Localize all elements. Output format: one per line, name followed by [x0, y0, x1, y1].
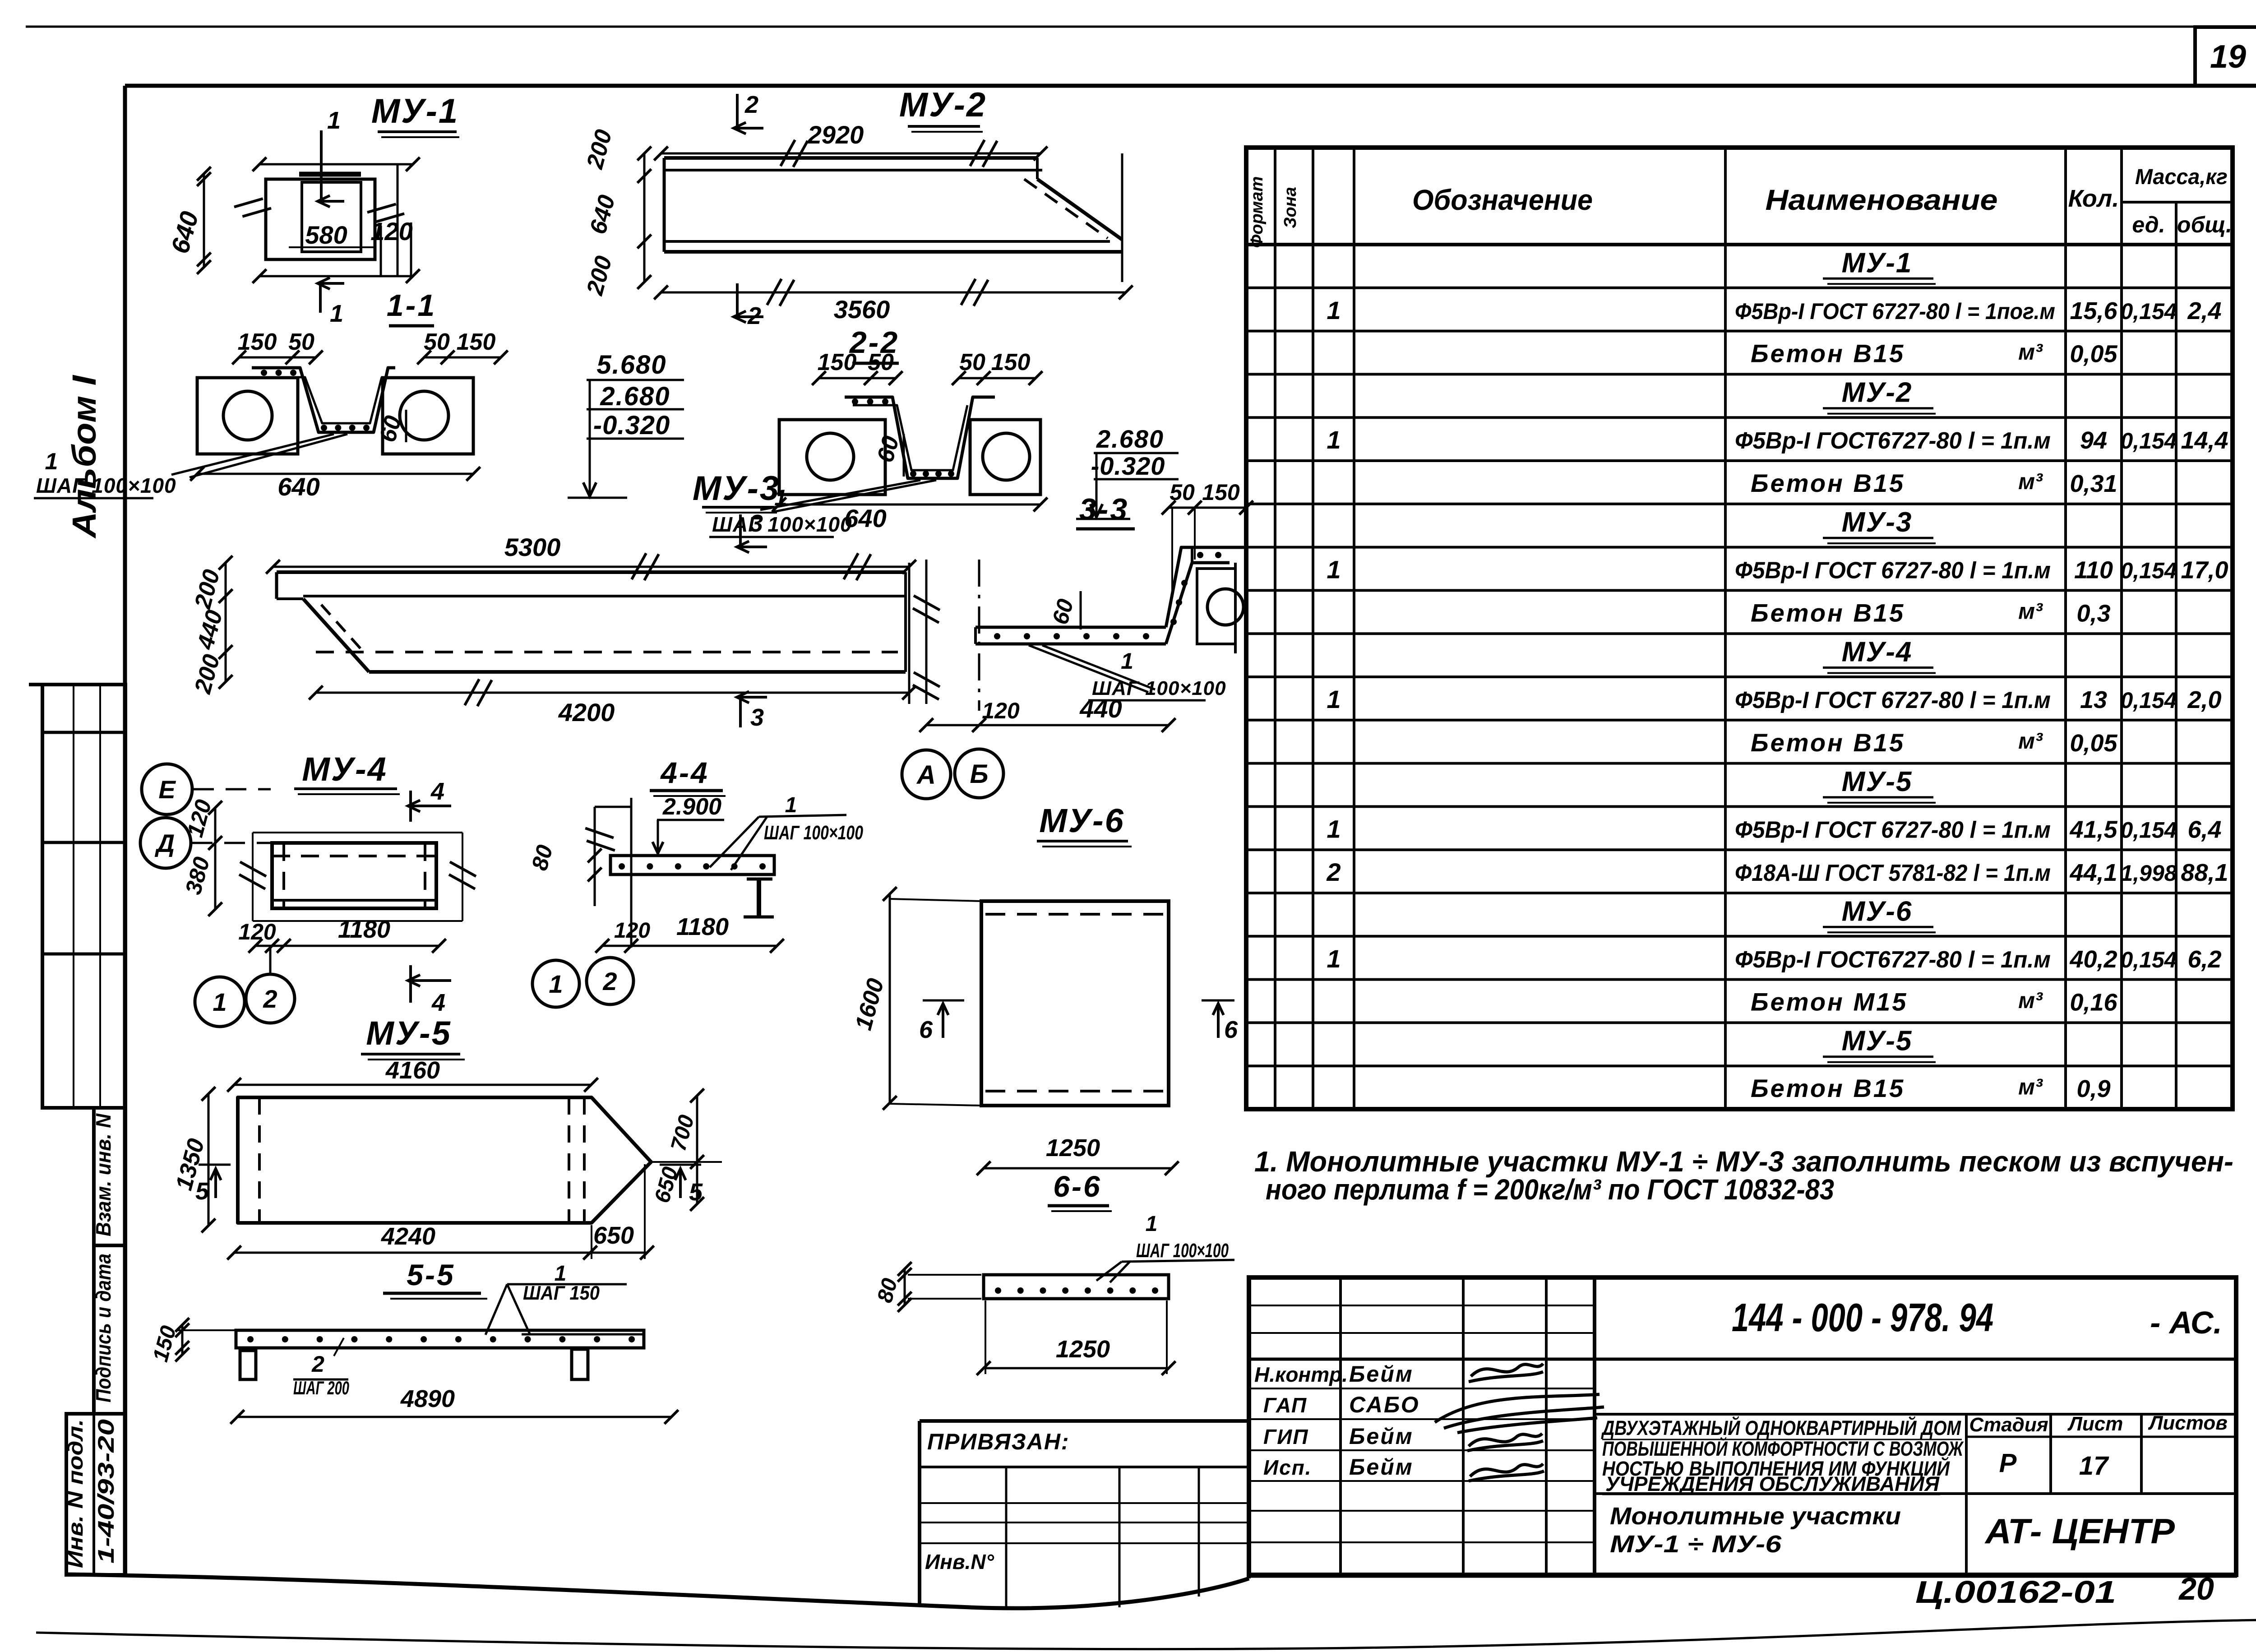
svg-text:2.680: 2.680 [1096, 425, 1164, 453]
svg-text:5-5: 5-5 [407, 1258, 455, 1291]
svg-text:Масса,кг: Масса,кг [2135, 165, 2228, 189]
svg-text:0,154: 0,154 [2120, 558, 2177, 583]
svg-text:МУ-5: МУ-5 [1842, 1026, 1913, 1057]
svg-text:Р: Р [1999, 1448, 2017, 1478]
svg-text:Бетон В15: Бетон В15 [1751, 1074, 1905, 1102]
svg-text:41,5: 41,5 [2069, 816, 2117, 843]
svg-text:Инв.N°: Инв.N° [925, 1550, 994, 1573]
MU-6 plan outline [981, 901, 1169, 1106]
MU-3 plate outline [277, 570, 906, 574]
svg-text:Подпись и дата: Подпись и дата [92, 1254, 115, 1402]
section 4-4 left dim lines [594, 807, 596, 906]
svg-text:88,1: 88,1 [2181, 859, 2228, 886]
svg-text:МУ-6: МУ-6 [1039, 802, 1125, 839]
svg-text:50: 50 [959, 349, 985, 375]
MU-2 section mark 2 bottom [736, 283, 739, 317]
svg-text:Н.контр.: Н.контр. [1254, 1363, 1348, 1386]
svg-text:Бетон В15: Бетон В15 [1751, 598, 1905, 627]
svg-text:Д: Д [155, 829, 175, 857]
svg-text:общ.: общ. [2177, 212, 2232, 237]
svg-text:2: 2 [744, 91, 758, 118]
section 5-5 slab [236, 1330, 644, 1348]
MU-1 section mark 1 bottom [319, 283, 322, 313]
svg-text:13: 13 [2080, 686, 2107, 713]
svg-text:4240: 4240 [381, 1223, 435, 1250]
section 1-1 left hollow-core block [197, 378, 298, 454]
svg-text:Ф5Вр-I ГОСТ6727-80 l = 1п.м: Ф5Вр-I ГОСТ6727-80 l = 1п.м [1735, 947, 2051, 973]
svg-text:4: 4 [430, 778, 444, 805]
section 6-6 left dim 80 [904, 1269, 906, 1305]
svg-text:МУ-2: МУ-2 [899, 86, 987, 124]
section 1-1 dim 50 150 right [424, 356, 501, 359]
title block stadia list listov dividers [1595, 1413, 2236, 1416]
svg-text:2920: 2920 [807, 120, 864, 149]
MU-1 plan right dim verticals [380, 226, 382, 276]
svg-text:- АС.: - АС. [2150, 1305, 2222, 1340]
svg-text:5.680: 5.680 [596, 350, 666, 379]
materials table column lines [1274, 148, 1276, 1109]
axis circle 1 section 4-4 [532, 960, 579, 1007]
MU-3 top dim 5300 [273, 566, 909, 568]
svg-text:САБО: САБО [1349, 1392, 1420, 1417]
sheet top trim line [26, 26, 2256, 28]
svg-text:0,16: 0,16 [2070, 989, 2117, 1016]
svg-text:1180: 1180 [676, 913, 729, 940]
svg-text:4-4: 4-4 [660, 756, 709, 789]
MU-6 bottom dim 1250 [984, 1167, 1172, 1170]
MU-3 right dim vertical [908, 563, 911, 704]
svg-text:0,05: 0,05 [2070, 341, 2117, 368]
svg-text:2,0: 2,0 [2187, 686, 2221, 713]
svg-text:ГИП: ГИП [1263, 1425, 1308, 1448]
section 1-1 channel outline [252, 368, 395, 432]
svg-text:ШАГ 200: ШАГ 200 [293, 1377, 349, 1398]
sidebar box Inv N podl [66, 1414, 125, 1575]
svg-text:МУ-3: МУ-3 [693, 469, 780, 508]
svg-text:ПРИВЯЗАН:: ПРИВЯЗАН: [927, 1429, 1070, 1454]
MU-6 section mark 6 left [923, 1000, 964, 1002]
svg-text:ДВУХЭТАЖНЫЙ ОДНОКВАРТИРНЫЙ ДОМ: ДВУХЭТАЖНЫЙ ОДНОКВАРТИРНЫЙ ДОМ [1601, 1416, 1962, 1439]
MU-5 top dim 4160 [234, 1084, 591, 1086]
svg-text:150: 150 [818, 349, 857, 375]
section 1-1 bottom dim 640 [197, 473, 473, 475]
section 2-2 mesh label [760, 480, 920, 510]
svg-text:Стадия: Стадия [1969, 1414, 2048, 1436]
section 3-3 rising wall [1166, 563, 1230, 644]
svg-text:Е: Е [158, 775, 176, 804]
svg-text:2,4: 2,4 [2187, 297, 2221, 324]
svg-text:0,3: 0,3 [2076, 600, 2110, 627]
svg-text:МУ-6: МУ-6 [1842, 896, 1913, 927]
svg-text:Бейм: Бейм [1349, 1454, 1414, 1480]
drawing frame border [125, 84, 2256, 88]
materials table row lines [1246, 287, 2233, 289]
sidebar box Vzam inv N [94, 1108, 125, 1245]
MU-1 plan bottom dimension line [259, 275, 413, 278]
svg-text:6-6: 6-6 [1053, 1170, 1101, 1203]
svg-text:120: 120 [614, 919, 650, 943]
section 1-1 mesh label [171, 434, 334, 475]
svg-text:0,154: 0,154 [2120, 947, 2177, 972]
svg-text:2.680: 2.680 [600, 382, 670, 411]
svg-text:6,4: 6,4 [2187, 816, 2221, 843]
sidebar upper box row lines [42, 731, 125, 734]
svg-text:44,1: 44,1 [2069, 859, 2117, 886]
svg-text:Бетон В15: Бетон В15 [1751, 728, 1905, 757]
svg-text:0,154: 0,154 [2120, 817, 2177, 842]
svg-text:1: 1 [1327, 685, 1341, 713]
svg-text:120: 120 [238, 919, 276, 944]
svg-text:Б: Б [970, 759, 988, 789]
section 3-3 block with core [1197, 569, 1235, 644]
MU-4 section mark 4 bottom [409, 965, 412, 1003]
svg-text:Монолитные участки: Монолитные участки [1610, 1503, 1901, 1530]
svg-text:МУ-4: МУ-4 [1842, 637, 1913, 668]
section 2-2 right hollow-core block [970, 420, 1040, 495]
svg-text:2: 2 [263, 985, 277, 1013]
MU-1 plan outline [266, 179, 375, 259]
svg-text:650: 650 [593, 1222, 634, 1249]
axis circle 2 MU-4 [246, 974, 295, 1023]
MU-5 section mark 5 left [199, 1164, 231, 1166]
svg-text:0,9: 0,9 [2076, 1075, 2110, 1102]
svg-text:150: 150 [1202, 480, 1240, 505]
svg-text:Ф5Вр-I ГОСТ 6727-80 l = 1п.м: Ф5Вр-I ГОСТ 6727-80 l = 1п.м [1735, 817, 2051, 843]
svg-text:120: 120 [982, 698, 1020, 723]
svg-text:Наименование: Наименование [1766, 184, 1998, 216]
svg-text:ШАГ 100×100: ШАГ 100×100 [764, 822, 863, 844]
svg-text:ШАГ 150: ШАГ 150 [523, 1282, 600, 1304]
MU-4 left dims 120 380 [214, 808, 217, 909]
svg-text:МУ-1 ÷ МУ-6: МУ-1 ÷ МУ-6 [1610, 1531, 1782, 1558]
MU-5 section mark 5 right [660, 1164, 701, 1166]
section 3-3 dim 60 [1080, 591, 1082, 629]
svg-text:МУ-3: МУ-3 [1842, 507, 1913, 538]
svg-text:17: 17 [2079, 1451, 2109, 1481]
svg-text:Ц.00162-01: Ц.00162-01 [1915, 1574, 2116, 1610]
svg-text:Бетон В15: Бетон В15 [1751, 339, 1905, 368]
sidebar box Podpis i data [94, 1245, 125, 1414]
svg-text:2: 2 [1326, 858, 1341, 886]
privyazan row lines [920, 1502, 1249, 1504]
svg-text:50: 50 [288, 329, 314, 355]
MU-3 section mark 3 bottom [739, 697, 742, 727]
svg-text:0,154: 0,154 [2120, 688, 2177, 713]
section 6-6 bottom dim 1250 [985, 1300, 986, 1374]
svg-text:110: 110 [2074, 557, 2113, 584]
svg-text:14,4: 14,4 [2181, 427, 2228, 454]
section 3-3 mesh label [1042, 645, 1155, 689]
axis circle E [142, 764, 192, 814]
svg-text:Взам. инв. N: Взам. инв. N [92, 1113, 115, 1236]
svg-text:50: 50 [424, 329, 450, 355]
svg-text:Листов: Листов [2148, 1412, 2228, 1434]
svg-text:0,154: 0,154 [2120, 428, 2177, 453]
svg-text:МУ-5: МУ-5 [366, 1014, 452, 1052]
MU-1 plan top dimension line [259, 163, 413, 166]
svg-text:Ф5Вр-I ГОСТ 6727-80 l = 1пог.м: Ф5Вр-I ГОСТ 6727-80 l = 1пог.м [1735, 299, 2055, 324]
MU-5 right dims 700 650 [696, 1096, 698, 1204]
MU-4 bottom dims 120 1180 [255, 945, 439, 947]
svg-text:1,998: 1,998 [2120, 861, 2177, 886]
MU-3 section mark 3 top [739, 514, 742, 547]
MU-4 plan outline [272, 843, 436, 908]
svg-text:Ф5Вр-I ГОСТ6727-80 l = 1п.м: Ф5Вр-I ГОСТ6727-80 l = 1п.м [1735, 428, 2051, 454]
axis circle D [140, 818, 191, 868]
title block signature squiggles [1469, 1364, 1543, 1382]
MU-6 section mark 6 right [1202, 1000, 1234, 1002]
svg-text:0,154: 0,154 [2120, 299, 2177, 324]
svg-text:3-3: 3-3 [1079, 492, 1129, 527]
svg-text:Формат: Формат [1248, 176, 1267, 248]
svg-text:580: 580 [305, 221, 347, 249]
section 2-2 left hollow-core block [779, 420, 885, 495]
svg-text:150: 150 [991, 349, 1031, 375]
svg-text:1-1: 1-1 [387, 288, 436, 323]
svg-text:Ф5Вр-I ГОСТ 6727-80 l = 1п.м: Ф5Вр-I ГОСТ 6727-80 l = 1п.м [1735, 558, 2051, 584]
svg-text:1180: 1180 [338, 916, 390, 943]
section 1-1 right hollow-core block [383, 378, 473, 454]
svg-text:0,31: 0,31 [2070, 470, 2117, 497]
svg-text:1: 1 [785, 793, 797, 817]
svg-text:6: 6 [919, 1016, 933, 1043]
MU-2 plan plate outline [664, 156, 1037, 160]
svg-text:Альбом I: Альбом I [65, 375, 103, 539]
svg-text:5300: 5300 [504, 533, 561, 561]
MU-3 bottom dim 4200 [316, 692, 909, 694]
svg-text:0,05: 0,05 [2070, 730, 2117, 757]
svg-text:Кол.: Кол. [2068, 185, 2119, 212]
svg-text:1: 1 [1327, 555, 1341, 584]
section 6-6 slab [984, 1275, 1169, 1299]
section 2-2 dim 60 [903, 434, 905, 477]
MU-2 plan top dim 2920 [661, 153, 1040, 155]
section 5-5 left dim 150 [181, 1325, 184, 1355]
materials table header row line [1246, 243, 2233, 246]
svg-text:Обозначение: Обозначение [1412, 184, 1593, 216]
MU-2 left dim line 200 640 200 [643, 153, 646, 282]
materials table massa split line [2122, 201, 2233, 204]
svg-text:1: 1 [1327, 814, 1341, 843]
svg-text:2: 2 [311, 1351, 324, 1377]
privyazan header line [920, 1466, 1249, 1468]
svg-text:м³: м³ [2018, 728, 2043, 754]
svg-text:1: 1 [1121, 648, 1133, 674]
svg-text:4160: 4160 [385, 1057, 440, 1084]
svg-text:1: 1 [330, 300, 343, 327]
MU-5 left dim 1350 [208, 1094, 210, 1226]
svg-text:1: 1 [327, 107, 341, 134]
svg-text:2: 2 [602, 967, 617, 995]
svg-text:3: 3 [750, 704, 764, 731]
svg-text:АТ- ЦЕНТР: АТ- ЦЕНТР [1984, 1511, 2175, 1551]
svg-text:15,6: 15,6 [2070, 297, 2117, 324]
title block vertical lines left part [1339, 1277, 1342, 1575]
svg-text:Бетон В15: Бетон В15 [1751, 469, 1905, 497]
section 4-4 I-beam symbol [747, 878, 772, 881]
svg-text:МУ-4: МУ-4 [302, 750, 388, 788]
MU-4 axis dashed lines [193, 788, 271, 791]
title block left row lines [1249, 1305, 1595, 1306]
MU-3 left dim 200 440 200 [225, 563, 227, 682]
svg-text:2: 2 [747, 302, 761, 329]
MU-4 plan top dim line [253, 832, 462, 833]
svg-text:1250: 1250 [1046, 1134, 1100, 1161]
MU-5 bottom dims 4240 650 [234, 1252, 647, 1254]
section 2-2 channel outline [845, 397, 995, 478]
section 2-2 dim 150 50 left [819, 377, 896, 379]
svg-text:150: 150 [238, 329, 277, 355]
svg-text:ШАГ 100×100: ШАГ 100×100 [36, 474, 176, 497]
MU-1 dim 640 vertical [203, 174, 205, 267]
svg-text:Бейм: Бейм [1349, 1424, 1414, 1449]
svg-text:м³: м³ [2018, 469, 2043, 494]
section 1-1 dim 60 [405, 410, 407, 442]
svg-text:Зона: Зона [1281, 187, 1300, 228]
svg-text:50: 50 [1170, 480, 1195, 505]
svg-text:150: 150 [457, 329, 496, 355]
title block outer border [1249, 1277, 2236, 1575]
svg-text:МУ-5: МУ-5 [1842, 766, 1913, 797]
section 3-3 wall axis lines [925, 560, 928, 704]
materials table outer border [1246, 148, 2233, 1109]
svg-text:-0.320: -0.320 [593, 411, 670, 440]
section 3-3 wall rebar dots [1170, 619, 1177, 625]
svg-text:Бетон М15: Бетон М15 [1751, 988, 1908, 1016]
svg-text:Ф5Вр-I ГОСТ 6727-80 l = 1п.м: Ф5Вр-I ГОСТ 6727-80 l = 1п.м [1735, 687, 2051, 713]
section 1-1 dim 150 50 left [239, 356, 316, 359]
svg-text:Инв. N подл.: Инв. N подл. [64, 1419, 87, 1568]
svg-text:17,0: 17,0 [2181, 557, 2228, 584]
svg-text:ГАП: ГАП [1263, 1393, 1307, 1417]
sheet number box [2195, 27, 2256, 86]
MU-5 plan outline pencil shape [238, 1097, 651, 1223]
section 2-2 dim 50 150 right [959, 377, 1036, 379]
MU-2 right dim vertical [1121, 153, 1123, 282]
axis circle B [955, 749, 1003, 798]
svg-text:1: 1 [1327, 944, 1341, 973]
MU-2 bottom dim 3560 [661, 292, 1126, 294]
section 3-3 slab [975, 626, 1166, 629]
svg-text:2.900: 2.900 [662, 794, 721, 820]
svg-text:5: 5 [195, 1178, 209, 1205]
MU-1 dim 580 [289, 246, 374, 248]
svg-text:м³: м³ [2018, 339, 2043, 365]
svg-text:м³: м³ [2018, 599, 2043, 624]
axis circle 1 MU-4 [195, 977, 245, 1027]
svg-text:1: 1 [549, 970, 563, 998]
MU-2 section mark 2 top [736, 94, 739, 128]
axis circle 2 section 4-4 [587, 958, 633, 1004]
axis circle A [902, 750, 951, 799]
svg-text:1250: 1250 [1056, 1336, 1110, 1363]
svg-text:Лист: Лист [2067, 1413, 2123, 1435]
sidebar upper box column lines [73, 685, 74, 1108]
svg-text:МУ-1: МУ-1 [371, 92, 459, 130]
svg-text:Ф18А-Ш ГОСТ 5781-82 l = 1п.м: Ф18А-Ш ГОСТ 5781-82 l = 1п.м [1735, 860, 2051, 886]
privyazan block outer border [920, 1419, 1249, 1423]
section 5-5 supports [240, 1351, 256, 1379]
svg-text:40,2: 40,2 [2069, 946, 2117, 973]
section 3-3 dim 50 150 [1169, 507, 1246, 509]
svg-text:144 - 000 - 978. 94: 144 - 000 - 978. 94 [1732, 1295, 1993, 1340]
svg-text:-0.320: -0.320 [1091, 452, 1165, 480]
svg-text:1-40/93-20: 1-40/93-20 [93, 1419, 119, 1564]
svg-text:ед.: ед. [2132, 212, 2165, 237]
svg-text:м³: м³ [2018, 1074, 2043, 1099]
svg-text:94: 94 [2080, 427, 2107, 454]
MU-6 left dim 1600 [889, 894, 891, 1103]
svg-text:УЧРЕЖДЕНИЯ ОБСЛУЖИВАНИЯ: УЧРЕЖДЕНИЯ ОБСЛУЖИВАНИЯ [1605, 1472, 1940, 1495]
section 5-5 bottom dim 4890 [237, 1416, 671, 1418]
svg-text:3560: 3560 [834, 295, 890, 324]
svg-text:1: 1 [1327, 296, 1341, 324]
svg-text:19: 19 [2210, 39, 2246, 75]
svg-text:1: 1 [45, 449, 58, 475]
svg-text:50: 50 [868, 349, 894, 375]
svg-text:А: А [916, 760, 936, 790]
svg-text:МУ-1: МУ-1 [1842, 247, 1913, 278]
svg-text:м³: м³ [2018, 988, 2043, 1013]
svg-text:Бейм: Бейм [1349, 1361, 1414, 1387]
svg-text:1: 1 [213, 988, 227, 1016]
svg-text:3: 3 [749, 510, 763, 537]
sidebar upper box [29, 683, 125, 686]
svg-text:1: 1 [1146, 1212, 1158, 1236]
svg-text:ШАГ 100×100: ШАГ 100×100 [1136, 1240, 1229, 1262]
MU-4 section mark 4 top [409, 791, 412, 822]
svg-text:6,2: 6,2 [2187, 946, 2221, 973]
svg-text:ШАГ 100×100: ШАГ 100×100 [712, 513, 852, 536]
svg-text:640: 640 [277, 472, 319, 501]
svg-text:1: 1 [1327, 426, 1341, 454]
privyazan column lines [1005, 1467, 1008, 1608]
svg-text:20: 20 [2178, 1571, 2214, 1606]
section 2-2 bottom dim 640 [779, 504, 1040, 506]
svg-text:Исп.: Исп. [1263, 1456, 1312, 1479]
section 3-3 bottom dims 120 440 [926, 724, 1169, 727]
section 4-4 slab [610, 856, 774, 875]
svg-text:МУ-2: МУ-2 [1842, 377, 1913, 408]
svg-text:440: 440 [1079, 694, 1122, 723]
svg-text:4200: 4200 [558, 698, 615, 727]
svg-text:4: 4 [431, 989, 445, 1016]
MU-4 plan side dim verticals [252, 833, 254, 921]
svg-text:6: 6 [1224, 1016, 1238, 1043]
svg-text:4890: 4890 [400, 1385, 455, 1412]
MU-1 section mark 1 top [320, 130, 323, 201]
sheet bottom trim line [36, 1620, 2256, 1649]
section 4-4 bottom dims 120 1180 [602, 945, 777, 947]
svg-text:ного перлита f = 200кг/м³ п: ного перлита f = 200кг/м³ по ГОСТ 10832-… [1266, 1173, 1834, 1206]
